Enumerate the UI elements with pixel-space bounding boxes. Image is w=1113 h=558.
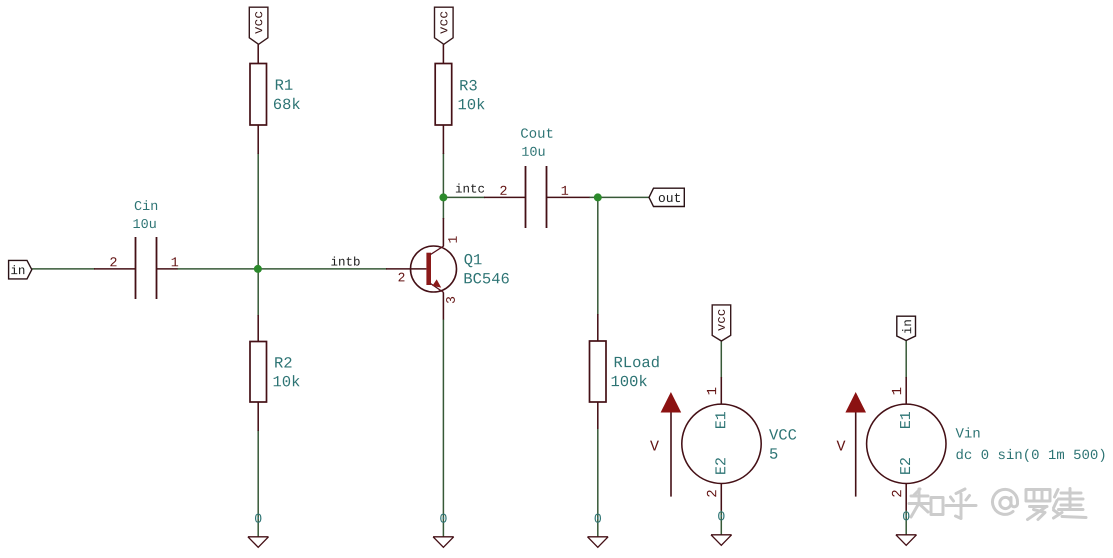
- transistor Q1 (BC546 NPN): [386, 218, 457, 320]
- value dc 0 sin(0 1m 500): [956, 449, 1104, 462]
- ground (rail B): [433, 537, 454, 548]
- value RLoad: [615, 356, 659, 367]
- wire: vcc flag to VCC source pin 1: [720, 341, 722, 378]
- pin number 2 (Cout): [500, 186, 506, 195]
- refdes Q1: [464, 254, 481, 267]
- arrow V (VCC source): [661, 392, 682, 497]
- value 10k (R2): [274, 375, 300, 386]
- wire: Cout pin 1 to out label: [589, 196, 649, 198]
- pin number 2 (Q1): [399, 273, 405, 282]
- resistor R3: [435, 44, 452, 154]
- arrow V (Vin source): [845, 392, 866, 497]
- net label 0 (Vin source): [903, 511, 909, 520]
- pin name E1 (Vin source): [900, 412, 910, 428]
- power flag vcc (rail A): [249, 7, 268, 44]
- capacitor Cout: [484, 166, 590, 228]
- net label intc: [456, 183, 484, 192]
- value R3: [460, 80, 476, 91]
- wire rail B: Q1 emitter to ground: [442, 319, 444, 537]
- wire: Vin source pin 2 to ground: [905, 510, 907, 535]
- wire: in flag to Vin source pin 1: [905, 341, 907, 379]
- resistor R1: [250, 44, 267, 154]
- junction node out: [594, 193, 602, 201]
- pin number 1 (Cin): [172, 257, 178, 266]
- pin name E1 (VCC source): [715, 412, 725, 428]
- value VCC: [769, 429, 796, 440]
- ground (rail C): [588, 537, 609, 548]
- value 68k: [274, 98, 300, 109]
- pin number 1 (Cout): [562, 186, 568, 195]
- watermark 知乎 @罗建: [909, 489, 1086, 520]
- pin number 2 (Cin): [110, 257, 116, 266]
- capacitor Cin: [94, 237, 178, 299]
- pin number 1 (Q1): [448, 236, 457, 242]
- pin number 3 (Q1): [446, 297, 455, 303]
- value Cout: [521, 128, 552, 138]
- value 10k (R3): [459, 98, 485, 109]
- pin number 2 (VCC source): [707, 490, 716, 496]
- ground (VCC source): [711, 535, 732, 546]
- power flag vcc (rail B): [435, 7, 454, 44]
- ground (Vin source): [896, 535, 917, 546]
- value Cin: [135, 200, 157, 210]
- value 5: [770, 448, 777, 458]
- wire: node intc to Cout pin 2: [443, 196, 485, 198]
- wire: Cin pin 1 to Q1 base (node intb): [177, 268, 387, 270]
- resistor RLoad: [590, 314, 607, 429]
- pin number 1 (VCC source): [707, 388, 716, 395]
- value Vin: [956, 427, 980, 437]
- text vcc (rail A flag): [255, 12, 262, 34]
- junction node intc: [439, 193, 447, 201]
- text vcc (rail B flag): [440, 12, 447, 34]
- power flag vcc (VCC source): [712, 305, 731, 341]
- text in (Vin source flag): [902, 320, 911, 333]
- wire: VCC source pin 2 to ground: [720, 510, 722, 535]
- value 10u (Cout): [522, 147, 544, 156]
- value 10u (Cin): [133, 219, 155, 228]
- net label 0 (VCC source): [718, 511, 724, 520]
- wire: in label to Cin pin 2: [32, 268, 95, 270]
- text in (input flag): [11, 265, 24, 274]
- value BC546: [465, 273, 509, 284]
- wire rail C: junction out to RLoad: [597, 197, 599, 315]
- pin name E2 (Vin source): [900, 458, 910, 474]
- global label out: [649, 188, 684, 206]
- resistor R2: [250, 315, 267, 431]
- net label 0 (rail B): [440, 514, 446, 523]
- net label intb: [331, 256, 359, 265]
- value R1: [276, 79, 293, 89]
- value R2: [275, 357, 291, 367]
- wire rail B: R3 bottom to Q1 collector: [442, 153, 444, 219]
- global label in (Vin source): [897, 316, 916, 340]
- voltage source Vin (E1/E2): [867, 377, 946, 511]
- pin number 1 (Vin source): [892, 388, 901, 395]
- text out (output flag): [659, 193, 680, 202]
- text vcc (VCC source flag): [718, 310, 725, 331]
- arrow label V (Vin source): [837, 441, 846, 451]
- ground (rail A): [248, 537, 269, 548]
- net label 0 (rail A): [255, 514, 261, 523]
- wire rail A: R1 bottom to junction intb: [257, 153, 259, 316]
- junction node intb: [254, 265, 262, 273]
- net label 0 (rail C): [595, 514, 601, 523]
- voltage source VCC (E1/E2): [682, 377, 761, 511]
- global label in (left input): [9, 260, 32, 279]
- arrow label V (VCC source): [650, 441, 659, 451]
- pin name E2 (VCC source): [715, 458, 725, 474]
- wire rail A: R2 bottom to ground: [257, 430, 259, 537]
- pin number 2 (Vin source): [892, 490, 901, 496]
- value 100k: [612, 375, 647, 386]
- wire rail C: RLoad bottom to ground: [597, 429, 599, 537]
